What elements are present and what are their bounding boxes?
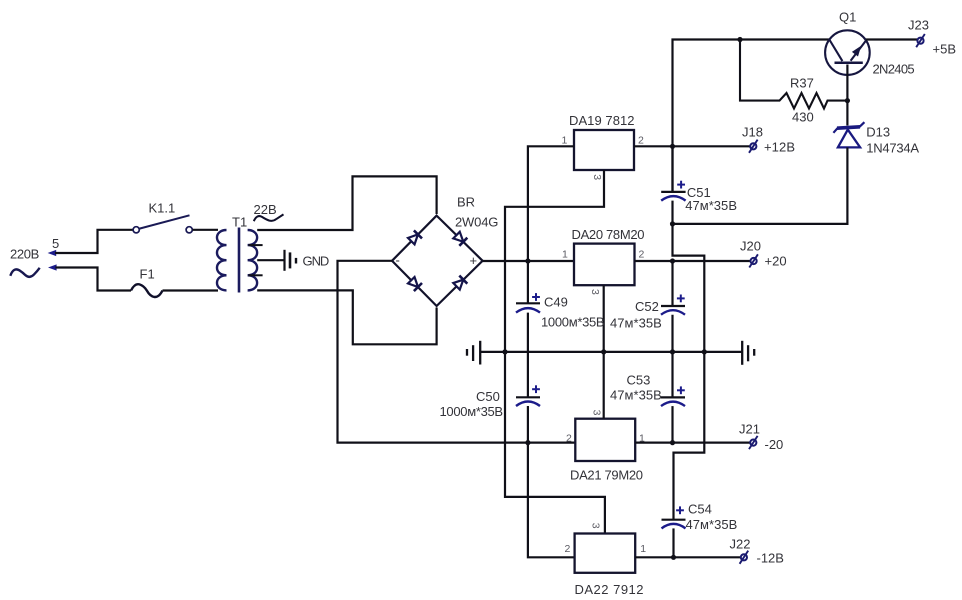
wire fuse to transformer <box>163 289 219 291</box>
svg-text:3: 3 <box>589 289 601 295</box>
wire secondary stub tap lower <box>249 274 263 276</box>
switch K1.1 <box>133 215 192 233</box>
svg-text:47м*35В: 47м*35В <box>610 387 662 402</box>
svg-text:1000м*35В: 1000м*35В <box>440 404 504 419</box>
ground symbol right <box>742 341 754 365</box>
wire top AC lead <box>55 230 133 253</box>
wire gnd jog to C54 <box>674 352 705 520</box>
wire Q1 emitter to J23 <box>866 38 917 40</box>
svg-text:3: 3 <box>591 174 603 180</box>
wire bridge minus to negative bus <box>338 261 575 443</box>
svg-text:2: 2 <box>639 249 645 261</box>
svg-text:1: 1 <box>562 249 568 261</box>
wire C51 top lead <box>671 146 673 192</box>
transformer T1 secondary winding <box>248 230 258 290</box>
svg-text:C49: C49 <box>544 295 568 310</box>
svg-text:+5В: +5В <box>933 42 957 57</box>
svg-text:1N4734A: 1N4734A <box>866 141 919 156</box>
svg-text:DA20 78M20: DA20 78M20 <box>572 227 645 242</box>
svg-text:2: 2 <box>565 543 571 555</box>
wire C52 leads <box>671 261 673 306</box>
wire secondary stub tap upper <box>249 244 263 246</box>
wire gnd to DA22 pin3 <box>505 352 605 534</box>
junction J18 bus <box>670 144 675 149</box>
svg-text:47м*35В: 47м*35В <box>686 517 738 532</box>
svg-text:BR: BR <box>457 195 475 210</box>
svg-text:2: 2 <box>566 432 572 444</box>
svg-text:C54: C54 <box>688 502 712 517</box>
squiggle under 22V <box>254 214 284 221</box>
svg-text:-20: -20 <box>765 437 784 452</box>
wire DA21 pin3 <box>603 352 605 419</box>
zener D13 <box>833 122 864 147</box>
svg-text:T1: T1 <box>232 215 247 230</box>
svg-text:+: + <box>470 253 478 268</box>
ground symbol left <box>467 341 480 365</box>
svg-text:DA21 79M20: DA21 79M20 <box>570 468 643 483</box>
wire Q1 base <box>846 65 848 126</box>
ground GND symbol <box>285 250 297 271</box>
svg-text:22В: 22В <box>254 202 277 217</box>
svg-text:J18: J18 <box>742 125 763 140</box>
wire C50 bottom lead <box>527 406 529 443</box>
capacitor C49 <box>516 293 540 313</box>
regulator DA20 box <box>574 244 635 286</box>
junction gnd DA19 drop <box>502 349 507 354</box>
svg-text:DA19 7812: DA19 7812 <box>569 113 635 128</box>
junction R37 top <box>737 37 742 42</box>
connector J20 <box>749 254 758 267</box>
wire secondary bottom to bridge <box>257 290 436 344</box>
wire DA21 pin1 to J21 <box>635 442 750 444</box>
wire C54 bottom lead <box>672 528 674 557</box>
svg-text:C53: C53 <box>627 372 651 387</box>
regulator DA21 box <box>575 419 635 461</box>
wire bridge plus to DA20 input <box>483 260 574 262</box>
svg-text:1000м*35В: 1000м*35В <box>541 315 605 330</box>
svg-text:J21: J21 <box>739 422 760 437</box>
diode bridge top-right <box>453 232 467 246</box>
diode bridge top-left <box>408 230 422 244</box>
wire +12 bus vertical <box>673 40 830 192</box>
wire negative raw to DA22 <box>528 443 575 558</box>
capacitor C51 <box>661 181 685 201</box>
wire switch to transformer <box>193 229 219 231</box>
capacitor C50 <box>516 385 540 406</box>
svg-text:Q1: Q1 <box>839 10 856 25</box>
svg-text:3: 3 <box>590 410 602 416</box>
capacitor C54 <box>662 506 686 528</box>
svg-text:3: 3 <box>590 523 602 529</box>
junction gnd C52 <box>670 349 675 354</box>
transformer T1 primary winding <box>217 230 227 290</box>
svg-text:2W04G: 2W04G <box>455 215 498 230</box>
fuse F1 <box>131 284 163 297</box>
wire C51 bottom to gnd jog <box>673 201 705 352</box>
svg-text:R37: R37 <box>790 76 814 91</box>
wire DA22 pin1 to J22 <box>635 556 741 558</box>
connector J22 <box>740 551 749 564</box>
wire C49 leads <box>527 261 529 303</box>
connector J23 <box>916 34 925 47</box>
junction C50 negative raw <box>525 440 530 445</box>
svg-text:47м*35В: 47м*35В <box>610 316 662 331</box>
svg-text:J20: J20 <box>740 239 761 254</box>
svg-text:J22: J22 <box>730 537 751 552</box>
wire bottom AC lead <box>55 268 131 291</box>
junction raw DA19 feed <box>525 258 530 263</box>
wire DA19 pin1 to raw bus <box>528 146 574 261</box>
junction gnd DA20 drop <box>601 349 606 354</box>
wire C53 bottom lead <box>671 406 673 443</box>
capacitor C53 <box>661 386 685 406</box>
arrow bottom AC lead <box>48 264 57 270</box>
wire DA20 pin2 to J20 <box>635 260 751 262</box>
AC sine symbol <box>10 268 39 277</box>
svg-text:2: 2 <box>638 134 644 146</box>
arrow top AC lead <box>48 250 57 256</box>
svg-text:C52: C52 <box>635 299 659 314</box>
wire DA19 pin3 ground <box>505 170 604 352</box>
junction D13 gnd <box>670 221 675 226</box>
regulator DA19 box <box>574 130 634 170</box>
svg-text:D13: D13 <box>866 125 890 140</box>
svg-text:5: 5 <box>52 236 59 251</box>
connector J21 <box>749 436 758 449</box>
wire secondary center tap to GND <box>257 259 283 261</box>
diode bridge bottom-right <box>453 276 467 290</box>
svg-text:F1: F1 <box>140 267 155 282</box>
svg-text:-12В: -12В <box>757 551 784 566</box>
connector J18 <box>749 140 758 153</box>
bridge rectifier BR diamond <box>392 216 483 306</box>
resistor R37 <box>740 40 846 109</box>
svg-text:DA22 7912: DA22 7912 <box>575 582 644 597</box>
svg-text:1: 1 <box>562 135 568 147</box>
svg-text:430: 430 <box>792 110 814 125</box>
junction gnd x704 <box>702 349 707 354</box>
svg-text:K1.1: K1.1 <box>149 200 176 215</box>
svg-text:+12В: +12В <box>764 140 795 155</box>
ground bus <box>481 351 742 353</box>
svg-text:GND: GND <box>303 253 330 268</box>
svg-text:220В: 220В <box>10 247 39 262</box>
junction base node <box>845 98 850 103</box>
capacitor C52 <box>661 295 685 315</box>
wire secondary top to bridge <box>257 176 436 230</box>
wire D13 anode to ground rail <box>673 147 848 224</box>
diode bridge bottom-left <box>408 277 422 291</box>
junction C54 J22 <box>671 555 676 560</box>
wire DA19 pin2 to J18 <box>634 145 750 147</box>
transformer T1 core <box>238 228 241 293</box>
wire DA20 pin3 ground <box>603 285 605 352</box>
junction C53 J21 <box>670 440 675 445</box>
svg-text:-: - <box>396 253 400 268</box>
svg-text:1: 1 <box>640 543 646 555</box>
svg-text:J23: J23 <box>908 18 929 33</box>
junction J20 bus <box>670 258 675 263</box>
svg-text:+20: +20 <box>765 254 787 269</box>
regulator DA22 box <box>575 534 636 573</box>
transistor Q1 <box>825 30 870 75</box>
svg-text:2N2405: 2N2405 <box>873 62 915 77</box>
svg-text:47м*35В: 47м*35В <box>685 198 737 213</box>
svg-text:C50: C50 <box>476 389 500 404</box>
